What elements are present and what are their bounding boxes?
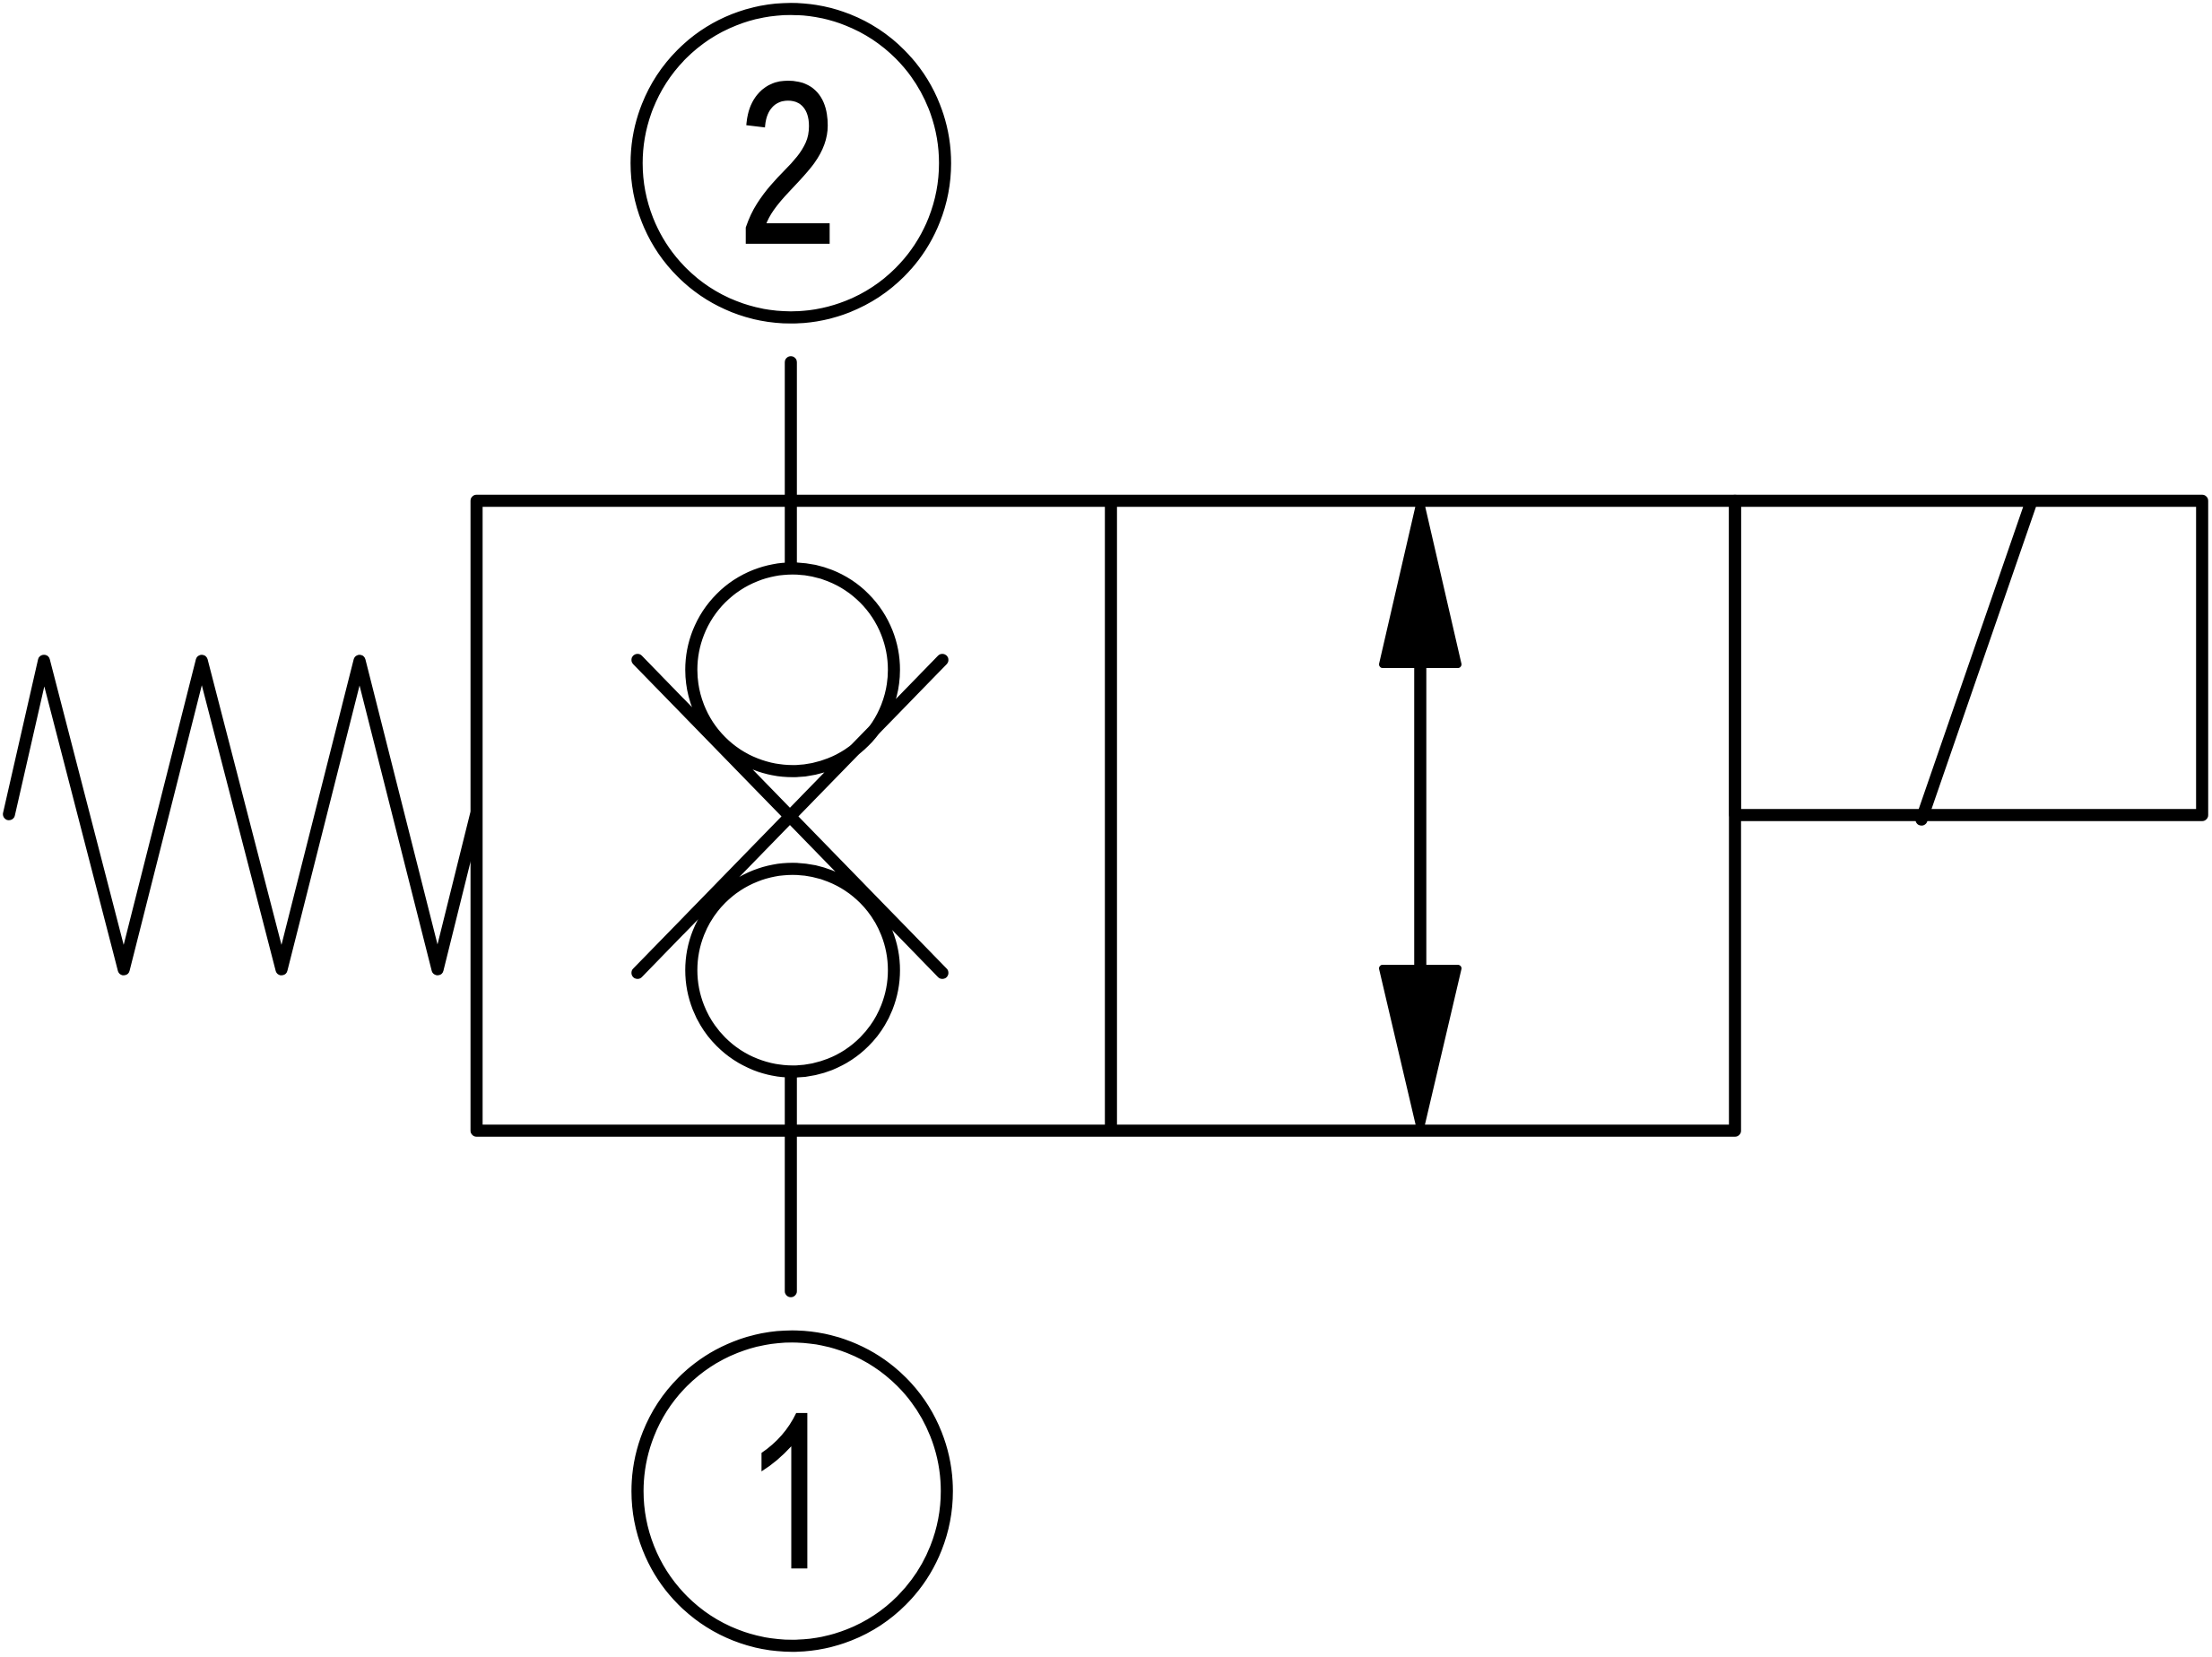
valve body (two position boxes) [477,501,1736,1132]
crossed seat line 1 [638,660,942,973]
crossed seat line 2 [638,660,942,973]
wire from valve body to port 1 [785,1072,797,1291]
spring [9,661,476,969]
check ball bottom circle [691,869,894,1071]
solenoid box [1735,501,2202,816]
port 2 circle [637,9,945,317]
flow arrow head top [1383,501,1458,664]
port 1 label [761,1413,807,1568]
flow arrow head bottom [1383,968,1458,1129]
svg-text:2: 2 [738,36,837,291]
flow arrow shaft [1414,664,1427,968]
port 1 circle [638,1337,947,1646]
wire from port 2 to valve body [785,362,797,568]
check ball top circle [691,568,894,771]
position divider [1105,501,1117,1132]
solenoid slash [1921,503,2031,820]
